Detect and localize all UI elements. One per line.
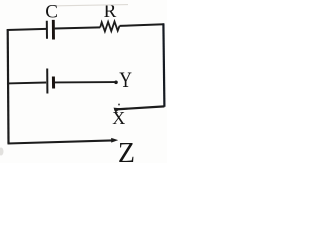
battery B1 short thick plate (right) [52, 77, 55, 89]
svg-text:C: C [45, 1, 58, 22]
svg-text:Y: Y [119, 68, 132, 92]
wire: top segment resistor to top-right corner [120, 24, 165, 26]
terminal arrowhead at X [114, 108, 121, 113]
capacitor C1 right plate [52, 20, 55, 40]
svg-text:Z: Z [118, 138, 135, 163]
stray ink dot near X [118, 104, 120, 106]
wire: left vertical side of loop [7, 29, 10, 143]
faint scan hairline along top [57, 5, 128, 6]
svg-text:X: X [112, 108, 125, 128]
terminal arrowhead at Z [111, 138, 118, 143]
terminal dot/arrow at Y [114, 81, 118, 85]
capacitor C1 left plate [46, 21, 48, 39]
faint scan smudge bottom-left edge [0, 148, 4, 156]
wire: bottom segment from left side toward terminal Z [8, 140, 113, 143]
battery B1 long plate (left) [46, 69, 48, 94]
wire: top left segment to capacitor [7, 29, 46, 30]
wire: right vertical side [163, 23, 164, 106]
wire: stub from right side to terminal X [114, 106, 164, 109]
svg-text:R: R [104, 1, 117, 22]
wire: middle segment from left side to battery [8, 82, 47, 85]
wire: top segment capacitor to resistor [55, 27, 101, 28]
wire: middle segment battery to terminal Y [55, 81, 115, 83]
resistor R1 zigzag [100, 22, 119, 32]
